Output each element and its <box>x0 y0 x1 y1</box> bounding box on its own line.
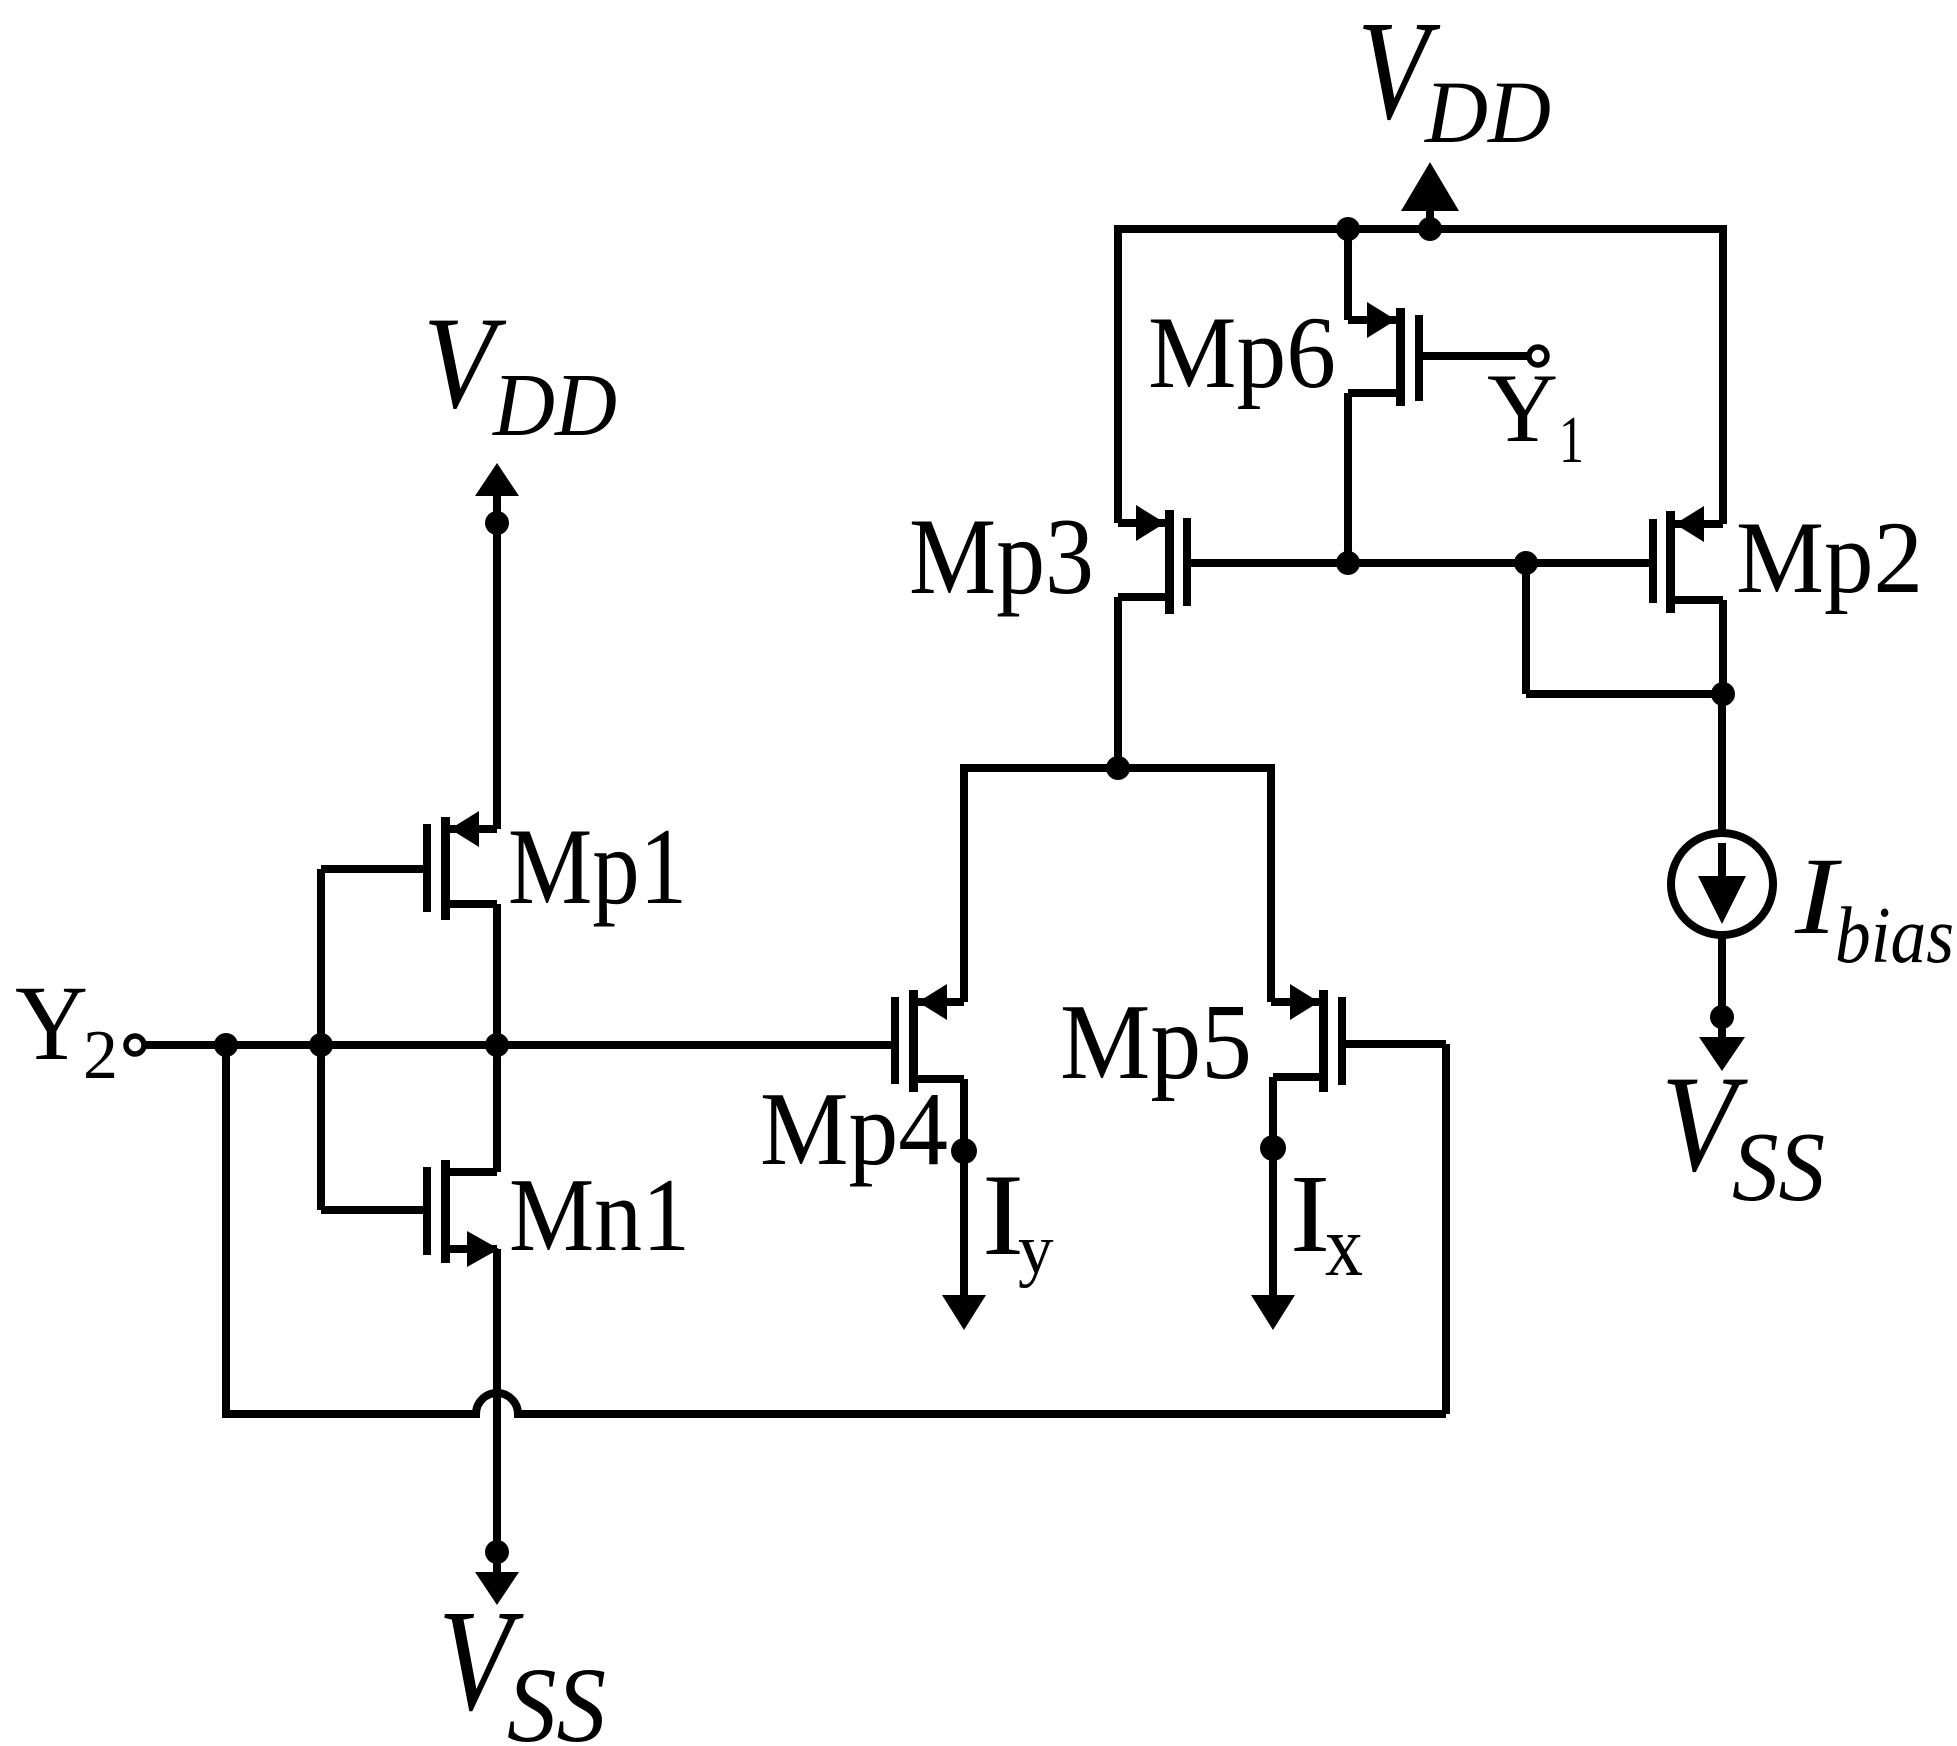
transistor Mp6 channel bar <box>1396 308 1405 406</box>
transistor Mn1 channel bar <box>441 1160 450 1263</box>
svg-text:Mp3: Mp3 <box>909 496 1094 617</box>
wire Ix output vertical <box>1269 1077 1277 1298</box>
transistor Mp1 channel bar <box>441 817 450 920</box>
transistor Mp6 source arrow <box>1367 302 1396 338</box>
node junction dot Mp2 drain <box>1711 682 1735 706</box>
power VSS right: node dot <box>1710 1005 1734 1029</box>
current source Ibias circle <box>1671 833 1773 935</box>
wire Mn1 source to VSS <box>493 1249 501 1545</box>
wire Mp3 drain vertical to mid rail <box>1114 597 1122 768</box>
node junction dot gate bus on Y2 line <box>309 1033 333 1057</box>
svg-text:SS: SS <box>507 1647 606 1746</box>
transistor Mp4 top arrow <box>918 984 947 1020</box>
label VDD left <box>423 289 617 455</box>
wire Mp5 top lead <box>1271 998 1319 1006</box>
wire Mp4 bottom lead <box>918 1075 964 1083</box>
svg-text:x: x <box>1325 1197 1363 1294</box>
label VDD right <box>1357 0 1551 162</box>
power VSS bottom: stem <box>493 1552 501 1573</box>
wire mid rail left drop to Mp4 <box>960 764 968 1002</box>
svg-text:DD: DD <box>491 356 617 455</box>
wire Mp3 source lead <box>1118 519 1165 527</box>
wire top VDD rail <box>1118 225 1723 233</box>
node junction dot Mp6 source on rail <box>1336 217 1360 241</box>
node dot on Ix line <box>1260 1135 1286 1161</box>
wire Mp2 top lead <box>1675 520 1723 528</box>
svg-text:Y: Y <box>1487 354 1558 463</box>
svg-text:Mp6: Mp6 <box>1148 296 1336 410</box>
power VDD symbol left: stem <box>493 495 501 523</box>
current Ix arrow head <box>1251 1295 1295 1330</box>
node junction dot Y2 to bottom rail <box>214 1033 238 1057</box>
wire Mp1 gate lead <box>321 865 423 873</box>
wire mid rail right drop to Mp5 <box>1267 764 1275 1002</box>
wire Mp5 gate lead <box>1346 1040 1446 1048</box>
node junction dot VDD right on rail <box>1418 217 1442 241</box>
wire Mp4 top lead <box>918 998 964 1006</box>
svg-text:Mp4: Mp4 <box>760 1070 948 1187</box>
current source Ibias arrow stem <box>1718 843 1726 878</box>
wire Mp6 gate lead to Y1 <box>1423 352 1528 360</box>
wire Mp6 source vertical from rail <box>1344 229 1352 320</box>
node junction dot Mp2 diode tap on gate line <box>1514 551 1538 575</box>
transistor Mp5 channel bar <box>1319 990 1328 1092</box>
transistor Mp1 top arrow <box>450 811 479 847</box>
label Iy <box>982 1151 1054 1289</box>
power VDD symbol right: arrow <box>1408 170 1452 207</box>
label Ix <box>1290 1153 1363 1294</box>
power VSS right: stem <box>1718 1017 1726 1038</box>
svg-text:Mn1: Mn1 <box>509 1156 690 1273</box>
wire Mn1 bottom lead <box>450 1245 497 1253</box>
label Ibias <box>1794 835 1954 980</box>
transistor Mp2 top arrow <box>1675 506 1704 542</box>
wire Mp3 drain lead <box>1118 593 1165 601</box>
svg-text:SS: SS <box>1732 1113 1825 1222</box>
svg-text:DD: DD <box>1424 64 1551 162</box>
node dot on Iy line <box>951 1138 977 1164</box>
power VSS bottom: node dot <box>485 1540 509 1564</box>
svg-text:Y: Y <box>15 965 88 1083</box>
power VSS right: arrow <box>1699 1037 1745 1071</box>
transistor Mp4 channel bar <box>909 990 918 1092</box>
wire left drop to bottom rail <box>222 1045 230 1414</box>
svg-text:Mp2: Mp2 <box>1736 501 1923 615</box>
wire Mp1 top lead <box>450 825 497 833</box>
wire Mp2 bottom lead <box>1675 596 1723 604</box>
wire mid rail above Mp4/Mp5 <box>964 764 1271 772</box>
transistor Mn1 gate bar <box>423 1167 431 1255</box>
label VSS bottom <box>438 1581 606 1746</box>
wire gate bus Mp1 to Mn1 <box>317 869 325 1210</box>
transistor Mp5 gate bar <box>1338 997 1346 1085</box>
transistor Mp6 gate bar <box>1415 315 1423 401</box>
transistor Mp4 gate bar <box>891 997 899 1084</box>
label Y1 <box>1487 354 1584 477</box>
terminal Y2 circle <box>126 1036 144 1054</box>
transistor Mp5 top arrow <box>1290 984 1319 1020</box>
wire Mn1 gate lead <box>321 1206 423 1214</box>
wire Mp2 diode vertical <box>1522 563 1530 694</box>
wire Mp5 bottom lead <box>1273 1073 1319 1081</box>
transistor Mp1 gate bar <box>423 824 431 912</box>
transistor Mp2 channel bar <box>1666 511 1675 613</box>
node junction dot Mp6 drain on gate line <box>1336 551 1360 575</box>
node junction dot Mp1-Mn1 drain on Y2 line <box>485 1033 509 1057</box>
wire Y2 line to Mp4 gate <box>146 1041 891 1049</box>
svg-text:bias: bias <box>1835 892 1954 980</box>
transistor Mn1 source arrow <box>467 1231 499 1267</box>
wire bottom rail with hop over Mn1 source <box>222 1393 1446 1414</box>
current Iy arrow head <box>942 1295 986 1330</box>
svg-text:Mp5: Mp5 <box>1060 983 1252 1102</box>
wire Mp6 drain vertical to gate line <box>1344 393 1352 563</box>
transistor Mp3 source arrow <box>1136 505 1165 541</box>
wire Mp1 drain to Mn1 drain <box>493 904 501 1172</box>
wire Mp1 bottom lead <box>450 900 497 908</box>
terminal Y1 circle <box>1529 347 1547 365</box>
wire rail right drop to Mp2 source <box>1719 225 1727 524</box>
svg-text:2: 2 <box>83 1017 118 1094</box>
wire Mp2 drain to Ibias <box>1718 694 1726 833</box>
current source Ibias arrow head <box>1698 876 1746 924</box>
power VDD symbol right: stem <box>1426 207 1434 229</box>
wire Mn1 top lead <box>450 1168 497 1176</box>
transistor Mp3 gate bar <box>1183 518 1191 606</box>
wire Mp6 source lead <box>1348 316 1396 324</box>
power VDD symbol left: arrow <box>475 463 519 496</box>
transistor Mp3 channel bar <box>1165 510 1174 614</box>
wire Iy output vertical <box>960 1079 968 1298</box>
svg-text:I: I <box>1290 1153 1330 1276</box>
wire Mp2 diode horizontal <box>1526 690 1723 698</box>
wire rail left drop to Mp3 source <box>1114 225 1122 523</box>
label Y2 <box>15 965 118 1094</box>
wire Mp5 gate drop to bottom rail <box>1442 1044 1450 1414</box>
node junction dot Mp3 drain on mid rail <box>1106 756 1130 780</box>
label VSS right <box>1661 1047 1825 1222</box>
node dot VDD left <box>485 511 509 535</box>
wire VDD left to Mp1 source <box>493 523 501 829</box>
svg-text:Mp1: Mp1 <box>508 806 687 927</box>
wire gate line Mp3 to Mp2 <box>1191 559 1649 567</box>
power VSS bottom: arrow <box>475 1572 519 1605</box>
wire Mp6 drain lead <box>1348 389 1396 397</box>
wire Mp2 drain vertical <box>1719 600 1727 695</box>
transistor Mp2 gate bar <box>1649 519 1657 603</box>
svg-text:y: y <box>1018 1211 1054 1289</box>
svg-text:1: 1 <box>1559 403 1584 477</box>
wire Ibias to VSS <box>1718 935 1726 1010</box>
